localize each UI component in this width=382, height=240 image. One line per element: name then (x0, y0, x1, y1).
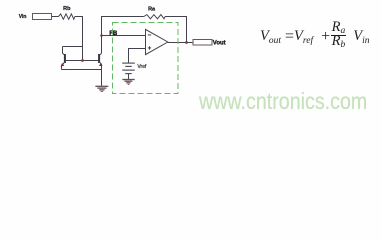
svg-text:Rb: Rb (63, 6, 71, 12)
wire Q2 collector to FB and Ra (102, 17, 144, 54)
junction dot base/Rb (81, 59, 84, 62)
wire FB to op-amp inverting input (102, 35, 146, 37)
transistor Q1 (61, 47, 66, 70)
svg-text:FB: FB (109, 31, 118, 37)
junction dot output feedback (185, 41, 188, 44)
ground G2 (122, 80, 134, 85)
wire emitters to ground drop (62, 70, 102, 86)
resistor Ra (144, 15, 165, 19)
svg-text:Vref: Vref (137, 64, 147, 70)
wire op-amp noninverting input to Vref (129, 49, 146, 63)
wire Vin port to Rb (52, 16, 59, 18)
op-amp U1 (146, 29, 168, 54)
battery Vref (122, 63, 135, 74)
port Vout (193, 40, 212, 46)
wire battery to ground (128, 74, 130, 80)
svg-text:Ra: Ra (148, 6, 156, 12)
wire op-amp output to Vout port (168, 42, 193, 44)
svg-text:Vin: Vin (19, 14, 27, 20)
wire Q1 collector diode loop (63, 46, 83, 48)
node FB junction dot (100, 34, 103, 37)
watermark (199, 88, 367, 115)
ground G1 (95, 86, 108, 91)
port Vin (33, 14, 52, 20)
resistor Rb (59, 14, 75, 19)
transistor Q2 (98, 53, 103, 69)
wire Rb to base junction (75, 17, 83, 61)
boundary box (dashed reference outline) (113, 23, 179, 94)
wire Ra to output feedback (165, 17, 186, 43)
svg-text:Vout: Vout (213, 41, 226, 47)
formula Vout = Vref + (Ra/Rb)Vin (260, 23, 369, 51)
wire base Q1-Q2 (66, 60, 100, 62)
